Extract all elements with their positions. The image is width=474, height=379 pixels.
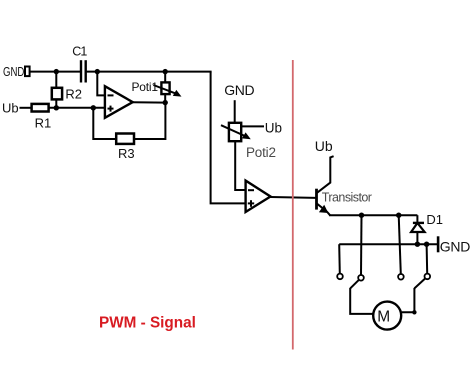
svg-text:GND: GND <box>440 239 470 255</box>
GND terminal (right) <box>437 236 440 252</box>
node junction contact B <box>359 213 364 218</box>
potentiometer Poti1 <box>153 72 181 103</box>
wire R1 to op-amp + input <box>49 107 105 109</box>
svg-text:Ub: Ub <box>265 120 282 135</box>
svg-text:D1: D1 <box>426 212 443 227</box>
potentiometer Poti2 <box>221 123 251 141</box>
node junction contact C <box>396 213 401 218</box>
switch contact D with arm to motor <box>402 244 431 314</box>
svg-text:M: M <box>377 309 390 326</box>
wire emitter rail <box>329 214 417 216</box>
op-amp U2 comparator <box>246 181 271 212</box>
node junction D1 anode <box>415 242 420 247</box>
op-amp U1 <box>105 86 133 118</box>
svg-text:C1: C1 <box>72 44 87 58</box>
svg-text:R2: R2 <box>65 86 82 101</box>
red divider line <box>292 60 294 350</box>
wire inverting input stub <box>97 72 105 96</box>
switch contact B with arm to motor <box>350 215 373 314</box>
svg-text:R3: R3 <box>118 146 135 161</box>
node junction Poti1 top <box>163 69 168 74</box>
svg-text:Poti2: Poti2 <box>246 145 276 160</box>
svg-text:PWM - Signal: PWM - Signal <box>99 314 196 331</box>
svg-text:GND: GND <box>224 82 254 98</box>
svg-text:R1: R1 <box>35 116 52 131</box>
resistor R1 <box>32 104 49 112</box>
wire feedback loop via R3 <box>93 108 116 139</box>
node junction R2 top <box>54 69 59 74</box>
wire C1 to corner (triangle-wave net) <box>86 71 212 73</box>
wire U1 output <box>133 101 166 103</box>
svg-text:Ub: Ub <box>2 101 19 116</box>
resistor R3 <box>116 134 134 144</box>
resistor R2 <box>52 72 62 108</box>
node junction contact D <box>424 242 429 247</box>
node junction inverting input <box>95 69 100 74</box>
wire GND terminal to C1 <box>30 71 80 73</box>
motor M <box>373 302 401 330</box>
svg-text:Ub: Ub <box>315 138 333 154</box>
wire GND rail <box>339 243 437 245</box>
wire Poti2 bottom to comparator - input <box>235 141 245 190</box>
wire U2 output to transistor base <box>271 196 316 199</box>
node junction feedback <box>91 105 96 110</box>
wire Ub to R1 <box>20 107 33 109</box>
node junction U1 output <box>163 100 168 105</box>
switch contact A <box>337 244 343 279</box>
node junction R2 bottom <box>54 105 59 110</box>
svg-text:Poti1: Poti1 <box>132 80 159 94</box>
GND terminal (top-left) <box>25 67 30 77</box>
wire Poti2 wiper to Ub <box>241 125 264 127</box>
capacitor C1 <box>81 60 86 82</box>
diode D1 <box>411 215 425 244</box>
transistor Q1 <box>317 156 334 215</box>
wire R3 to output node <box>134 103 165 139</box>
wire GND to Poti2 <box>234 100 236 123</box>
svg-text:Transistor: Transistor <box>322 190 372 204</box>
switch contact C <box>398 215 404 279</box>
wire down to comparator + input <box>211 72 246 204</box>
svg-text:GND: GND <box>3 66 24 80</box>
